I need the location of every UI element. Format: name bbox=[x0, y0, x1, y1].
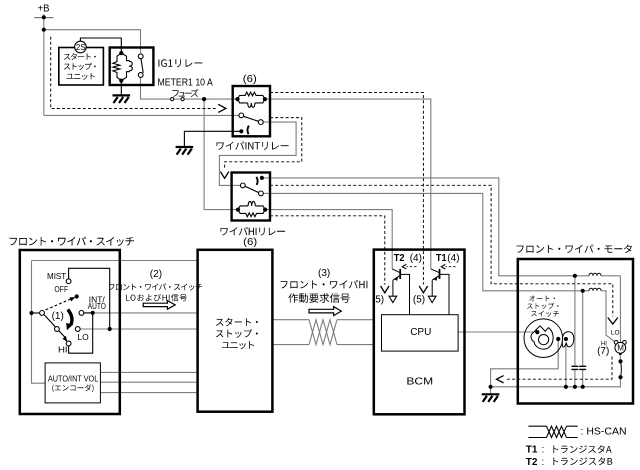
svg-text::: : bbox=[542, 457, 545, 468]
label (1) bbox=[52, 311, 64, 322]
label start-stop unit line1 bbox=[216, 318, 258, 326]
svg-text:T2: T2 bbox=[526, 457, 538, 468]
svg-text:HI: HI bbox=[58, 344, 68, 354]
node +B bus vertical wire bbox=[43, 14, 45, 115]
junction HI coil right bbox=[263, 208, 267, 212]
switch IG1 relay contact arm bbox=[141, 58, 143, 72]
transistor T1 bbox=[428, 264, 455, 314]
junction auto-stop contact feed bbox=[535, 330, 539, 334]
signal flow dashed: start-stop unit to INT relay bbox=[51, 37, 226, 113]
inductor IG1 coil (vertical) bbox=[121, 53, 132, 81]
label MIST bbox=[47, 271, 66, 281]
svg-text:LO: LO bbox=[611, 329, 620, 336]
label auto-stop switch line2 bbox=[527, 303, 559, 309]
contact circle rotary LO bbox=[75, 327, 80, 332]
label M motor bbox=[617, 344, 624, 353]
rotation direction arc arrow (1) bbox=[66, 310, 73, 331]
motor M body bbox=[615, 342, 626, 353]
legend T2 transistor B bbox=[526, 457, 613, 468]
switch INT relay contact arm bbox=[244, 116, 259, 121]
wire LO signal to start-stop unit bbox=[80, 328, 197, 330]
label auto-stop switch line3 bbox=[531, 311, 559, 317]
junction choke row 1 tap bbox=[573, 274, 577, 278]
svg-text::: : bbox=[542, 445, 545, 456]
wire encoder line 1 bbox=[100, 371, 197, 373]
block arrow (3) bbox=[309, 307, 341, 316]
switch rotary INT/AUTO stub and HI link bbox=[69, 313, 93, 353]
wire HS-CAN low line bbox=[272, 344, 373, 346]
wire HI relay switch common-out to motor LO brush bbox=[262, 178, 575, 276]
wire HS-CAN high line bbox=[272, 319, 373, 321]
junction INT/AUTO-HI node bbox=[91, 311, 95, 315]
contact circle rotary INT/AUTO bbox=[79, 311, 84, 316]
switch rotary OFF arm arrowhead bbox=[70, 297, 76, 302]
relay box wiper INT bbox=[233, 86, 270, 136]
junction motor contact bottom bbox=[618, 375, 622, 379]
contact circle IG1 switch bottom bbox=[138, 73, 143, 78]
contact circle HI relay common bbox=[240, 183, 245, 188]
svg-text:CPU: CPU bbox=[410, 327, 431, 338]
wire fuse junction down to HI relay coil bbox=[204, 99, 238, 210]
wire INT relay switch NO to HI relay switch common bbox=[219, 122, 296, 185]
wire condenser 2 branch bbox=[582, 291, 584, 387]
signal flow dashed: HI relay out to motor LO bbox=[270, 185, 618, 324]
resistor INT relay coil (upper zigzag) bbox=[238, 92, 265, 99]
label front wiper switch bbox=[10, 237, 135, 246]
label INT/ bbox=[89, 294, 106, 304]
label HI motor bbox=[601, 341, 607, 347]
label LO rotary bbox=[77, 332, 89, 342]
wire encoder line 2 bbox=[100, 381, 197, 383]
svg-text:(4): (4) bbox=[410, 253, 422, 264]
wire +B down feed to INT relay switch common bbox=[44, 114, 239, 116]
resistor HI relay coil (lower zigzag) bbox=[238, 210, 265, 217]
legend HS-CAN twisted pair symbol bbox=[528, 426, 577, 437]
label wiper INT relay bbox=[216, 141, 288, 150]
svg-text:+B: +B bbox=[38, 4, 50, 15]
node +B terminal bar bbox=[34, 17, 53, 19]
svg-text:T1: T1 bbox=[436, 253, 447, 264]
label (6) HI relay bbox=[243, 236, 257, 248]
label (5) of T2 bbox=[372, 294, 384, 305]
label (7) bbox=[597, 346, 609, 357]
wire condenser 1 branch bbox=[574, 276, 576, 387]
junction IG1 coil bottom bbox=[119, 79, 123, 83]
junction +B branch bbox=[42, 28, 46, 32]
label (4) of T1 bbox=[447, 253, 459, 264]
label HI rotary bbox=[58, 344, 68, 354]
component box front wiper motor bbox=[518, 259, 633, 404]
switch rotary arm arrowhead bbox=[63, 336, 68, 342]
label AUTO bbox=[88, 301, 106, 311]
wire switch common to start-stop unit bbox=[32, 260, 198, 262]
wire HS-CAN twisted pair crossover A bbox=[309, 320, 337, 345]
label start-stop unit (top) line3 bbox=[67, 73, 95, 80]
svg-text:MIST: MIST bbox=[47, 271, 66, 281]
contact circle IG1 switch top bbox=[138, 54, 143, 59]
ground INT relay bbox=[176, 147, 194, 155]
junction choke row 2 tap bbox=[581, 289, 585, 293]
svg-text:M: M bbox=[617, 344, 624, 353]
label T1 bbox=[436, 253, 447, 264]
junction rail follower P2 bbox=[564, 385, 568, 389]
contact circle INT relay NO bbox=[258, 120, 263, 125]
svg-text:(2): (2) bbox=[150, 269, 162, 280]
signal flow dashed: HI relay coil drive from T2 bbox=[270, 216, 389, 293]
contact circle rotary arm LO position bbox=[55, 327, 60, 332]
wire IG1 switch to fuse line bbox=[141, 78, 238, 100]
svg-text:2S: 2S bbox=[76, 43, 86, 52]
contact circle INT relay common bbox=[239, 113, 244, 118]
inductor INT relay coil (lower) bbox=[238, 99, 265, 107]
auto-stop switch cam plate bbox=[531, 326, 553, 349]
contact rotary OFF bbox=[75, 294, 79, 298]
junction cam follower P2 bbox=[564, 337, 568, 341]
signal flow dashed: INT relay NO to HI relay common bbox=[220, 118, 301, 179]
svg-text:T1: T1 bbox=[526, 445, 538, 456]
label (3) line1 front wiper HI bbox=[280, 280, 367, 289]
auto-stop switch cam disc bbox=[524, 319, 563, 358]
label start-stop unit (top) line2 bbox=[64, 63, 96, 70]
label IG1 relay bbox=[159, 59, 203, 67]
wire HI relay switch NO to motor HI brush bbox=[263, 193, 582, 290]
label start-stop unit line2 bbox=[216, 329, 258, 338]
contact INT relay NC (closed) bbox=[239, 129, 243, 133]
transistor T2 bbox=[389, 264, 417, 314]
label BCM bbox=[406, 375, 433, 387]
junction rail C2 bbox=[581, 385, 585, 389]
svg-text:(6): (6) bbox=[243, 236, 257, 248]
junction MIST-LO node bbox=[108, 327, 112, 331]
auto-stop moving contact bbox=[620, 361, 623, 377]
auto-stop switch cam hub bbox=[539, 335, 549, 345]
junction motor contact top bbox=[618, 359, 622, 363]
switch rotary arm OFF (dashed) bbox=[46, 299, 71, 310]
svg-text:(1): (1) bbox=[52, 311, 64, 322]
contact circle HI relay NO bbox=[259, 191, 264, 196]
label start-stop unit line3 bbox=[222, 341, 254, 349]
wire 2S to IG1 relay coil bbox=[80, 38, 121, 53]
component box start-stop unit bbox=[198, 250, 273, 412]
ground IG1 relay coil bbox=[113, 95, 131, 103]
svg-text:AUTO/INT VOL: AUTO/INT VOL bbox=[48, 374, 99, 383]
switch rotary common stub bbox=[32, 312, 40, 314]
legend HS-CAN text bbox=[581, 426, 627, 438]
label AUTO/INT VOL bbox=[48, 374, 99, 383]
wire motor common bottom rail bbox=[491, 377, 621, 387]
label (2) line1 front wiper switch bbox=[109, 283, 202, 290]
wire INT relay NC to ground bbox=[184, 131, 241, 146]
label METER1 10 A bbox=[158, 77, 214, 88]
wire auto-stop contact P1 to ground run bbox=[491, 339, 559, 394]
inductor motor choke 2 bbox=[589, 288, 601, 291]
junction cam follower P1 bbox=[556, 337, 560, 341]
sub-box CPU bbox=[382, 315, 459, 351]
svg-text:(5): (5) bbox=[413, 294, 425, 305]
label (2) line2 LO and HI signal bbox=[126, 294, 187, 301]
svg-text:(5): (5) bbox=[372, 294, 384, 305]
inductor motor choke 1 bbox=[589, 273, 601, 276]
wire switch common vertical bbox=[32, 261, 46, 384]
capacitor C1 plates bbox=[571, 366, 578, 369]
label +B bbox=[38, 4, 50, 15]
svg-text:BCM: BCM bbox=[406, 375, 433, 387]
wire encoder line 3 bbox=[100, 392, 197, 394]
label fuse bbox=[172, 89, 198, 97]
wire choke row 2 to motor HI contact bbox=[583, 291, 616, 342]
svg-text:(7): (7) bbox=[597, 346, 609, 357]
junction IG1 coil top bbox=[119, 51, 123, 55]
switch HI relay contact arm bbox=[245, 186, 259, 192]
contact circle rotary HI bbox=[66, 341, 71, 346]
switch HI relay rest-contact flick bbox=[256, 177, 257, 185]
label encoder bbox=[52, 384, 93, 392]
ground motor body earth bbox=[482, 394, 500, 402]
junction INT coil left bbox=[235, 97, 239, 101]
signal flow dashed: INT relay coil drive from T1 bbox=[270, 93, 428, 293]
label (4) of T2 bbox=[410, 253, 422, 264]
junction ground rail left bbox=[489, 385, 493, 389]
svg-text:LO: LO bbox=[77, 332, 89, 342]
motor M brushes bbox=[614, 341, 626, 355]
wire CPU to auto-stop switch contact bbox=[458, 331, 537, 333]
switch rotary arm to HI (solid) bbox=[44, 315, 65, 337]
signal flow dashed: motor return to ground bbox=[497, 357, 613, 383]
switch INT relay rest-contact flick bbox=[247, 126, 248, 135]
legend T1 transistor A bbox=[526, 445, 612, 456]
junction HI coil left bbox=[236, 208, 240, 212]
sub-box start-stop unit (top) bbox=[59, 48, 104, 86]
svg-text:: HS-CAN: : HS-CAN bbox=[581, 426, 627, 438]
svg-text:AUTO: AUTO bbox=[88, 301, 106, 311]
label T2 bbox=[394, 253, 405, 264]
label front wiper motor bbox=[517, 245, 632, 254]
junction rail C1 bbox=[573, 385, 577, 389]
capacitor C2 plates bbox=[579, 366, 586, 369]
label auto-stop switch line1 bbox=[529, 296, 555, 302]
label (3) line2 request signal bbox=[288, 293, 349, 303]
label (5) of T1 bbox=[413, 294, 425, 305]
wire +B to IG1 relay switch bbox=[44, 30, 141, 53]
svg-text:T2: T2 bbox=[394, 253, 405, 264]
block arrow (2) bbox=[143, 301, 175, 310]
junction INT coil right bbox=[263, 97, 267, 101]
label OFF bbox=[54, 284, 68, 294]
junction +B tap bbox=[42, 15, 46, 19]
sub-box AUTO/INT VOL encoder bbox=[45, 363, 100, 403]
component box BCM bbox=[374, 250, 465, 415]
svg-text:(3): (3) bbox=[318, 268, 330, 279]
svg-text:(6): (6) bbox=[243, 73, 257, 85]
component box front wiper switch bbox=[20, 250, 120, 414]
label (3) bbox=[318, 268, 330, 279]
relay box wiper HI bbox=[232, 173, 270, 221]
label CPU bbox=[410, 327, 431, 338]
junction fuse output node bbox=[202, 97, 206, 101]
label (6) INT relay bbox=[243, 73, 257, 85]
wire INT/AUTO-HI signal to start-stop unit bbox=[84, 312, 198, 314]
pilot circle 2S bbox=[75, 41, 87, 53]
svg-text:OFF: OFF bbox=[54, 284, 68, 294]
svg-text:METER1 10 A: METER1 10 A bbox=[158, 77, 214, 88]
resistor IG1 coil (vertical zigzag) bbox=[113, 53, 121, 81]
svg-text:(4): (4) bbox=[447, 253, 459, 264]
wire motor M to auto-stop moving contact bbox=[619, 355, 621, 379]
fuse METER1 10A bbox=[171, 98, 185, 101]
label LO motor bbox=[611, 329, 620, 336]
auto-stop switch follower contact blade bbox=[562, 332, 574, 347]
wire HI relay coil to transistor T2 collector bbox=[265, 210, 392, 269]
label (2) bbox=[150, 269, 162, 280]
wire HS-CAN twisted pair crossover B bbox=[309, 320, 337, 345]
wire motor armature top feed through choke row 1 bbox=[575, 276, 621, 343]
relay box IG1 bbox=[110, 48, 154, 86]
switch rotary MIST bridge wire to LO line bbox=[69, 268, 110, 329]
label wiper HI relay bbox=[220, 227, 285, 236]
label 2S bbox=[76, 43, 86, 52]
contact circle rotary MIST bbox=[66, 279, 71, 284]
inductor HI relay coil (upper) bbox=[238, 201, 265, 209]
contact circle rotary common bbox=[40, 311, 45, 316]
contact HI relay NC (closed) bbox=[260, 176, 264, 180]
label start-stop unit (top) line1 bbox=[64, 53, 96, 60]
wire IG1 coil to ground bbox=[120, 81, 122, 95]
wire auto-stop contact P2 down to common rail bbox=[565, 339, 567, 387]
junction rotary common node bbox=[29, 311, 33, 315]
wire INT relay coil to transistor T1 collector bbox=[265, 99, 431, 269]
